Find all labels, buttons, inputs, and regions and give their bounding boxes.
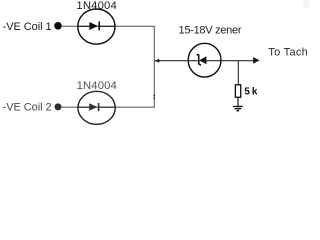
svg-text:5: 5 bbox=[244, 87, 250, 98]
wire: resistor to ground bbox=[237, 98, 239, 106]
wire: junction down to resistor bbox=[237, 61, 239, 85]
wire: vertical bus from top corner to bottom corner bbox=[153, 26, 155, 108]
diode D2 (1N4004, bottom) bbox=[78, 91, 115, 124]
svg-text:1N4004: 1N4004 bbox=[76, 0, 116, 12]
svg-text:15-18V zener: 15-18V zener bbox=[179, 25, 242, 37]
arrow: output to tach bbox=[253, 57, 259, 64]
svg-text:1N4004: 1N4004 bbox=[77, 80, 117, 92]
wire: darker ticks on vertical bus bbox=[153, 95, 155, 97]
wire: junction to To-Tach arrow (horizontal) bbox=[155, 60, 255, 62]
node -VE Coil 1 junction dot bbox=[54, 22, 62, 30]
resistor R1 (5 k) bbox=[235, 85, 240, 97]
diode D1 (1N4004, top) bbox=[78, 9, 115, 44]
zener diode ZD1 (15-18V) bbox=[188, 43, 221, 77]
svg-text:-VE Coil 2: -VE Coil 2 bbox=[3, 102, 52, 114]
svg-text:k: k bbox=[252, 87, 258, 98]
faint artifact block top-right bbox=[304, 0, 310, 9]
ground bbox=[233, 107, 243, 111]
svg-text:To Tach: To Tach bbox=[268, 47, 308, 59]
wire: coil 2 dot to corner (horizontal) bbox=[61, 106, 155, 108]
junction arrow (into zener branch) bbox=[155, 59, 160, 63]
node -VE Coil 2 junction dot bbox=[55, 103, 62, 110]
wire: coil 1 dot to corner (horizontal) bbox=[61, 25, 155, 27]
svg-text:-VE Coil 1: -VE Coil 1 bbox=[3, 21, 52, 33]
